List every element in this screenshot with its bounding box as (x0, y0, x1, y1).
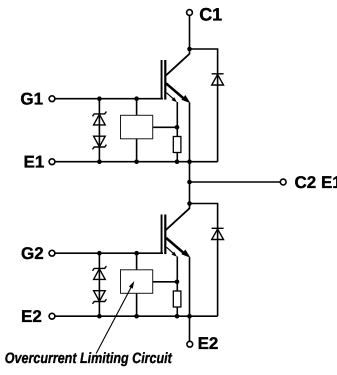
svg-text:G1: G1 (20, 90, 43, 109)
svg-text:E2: E2 (198, 334, 219, 353)
svg-text:C1: C1 (199, 5, 222, 25)
svg-text:E1: E1 (24, 153, 45, 172)
svg-text:Overcurrent Limiting Circuit: Overcurrent Limiting Circuit (5, 350, 173, 367)
svg-text:C2 E1: C2 E1 (295, 173, 337, 192)
svg-text:E2: E2 (21, 307, 42, 326)
svg-text:G2: G2 (21, 244, 44, 263)
